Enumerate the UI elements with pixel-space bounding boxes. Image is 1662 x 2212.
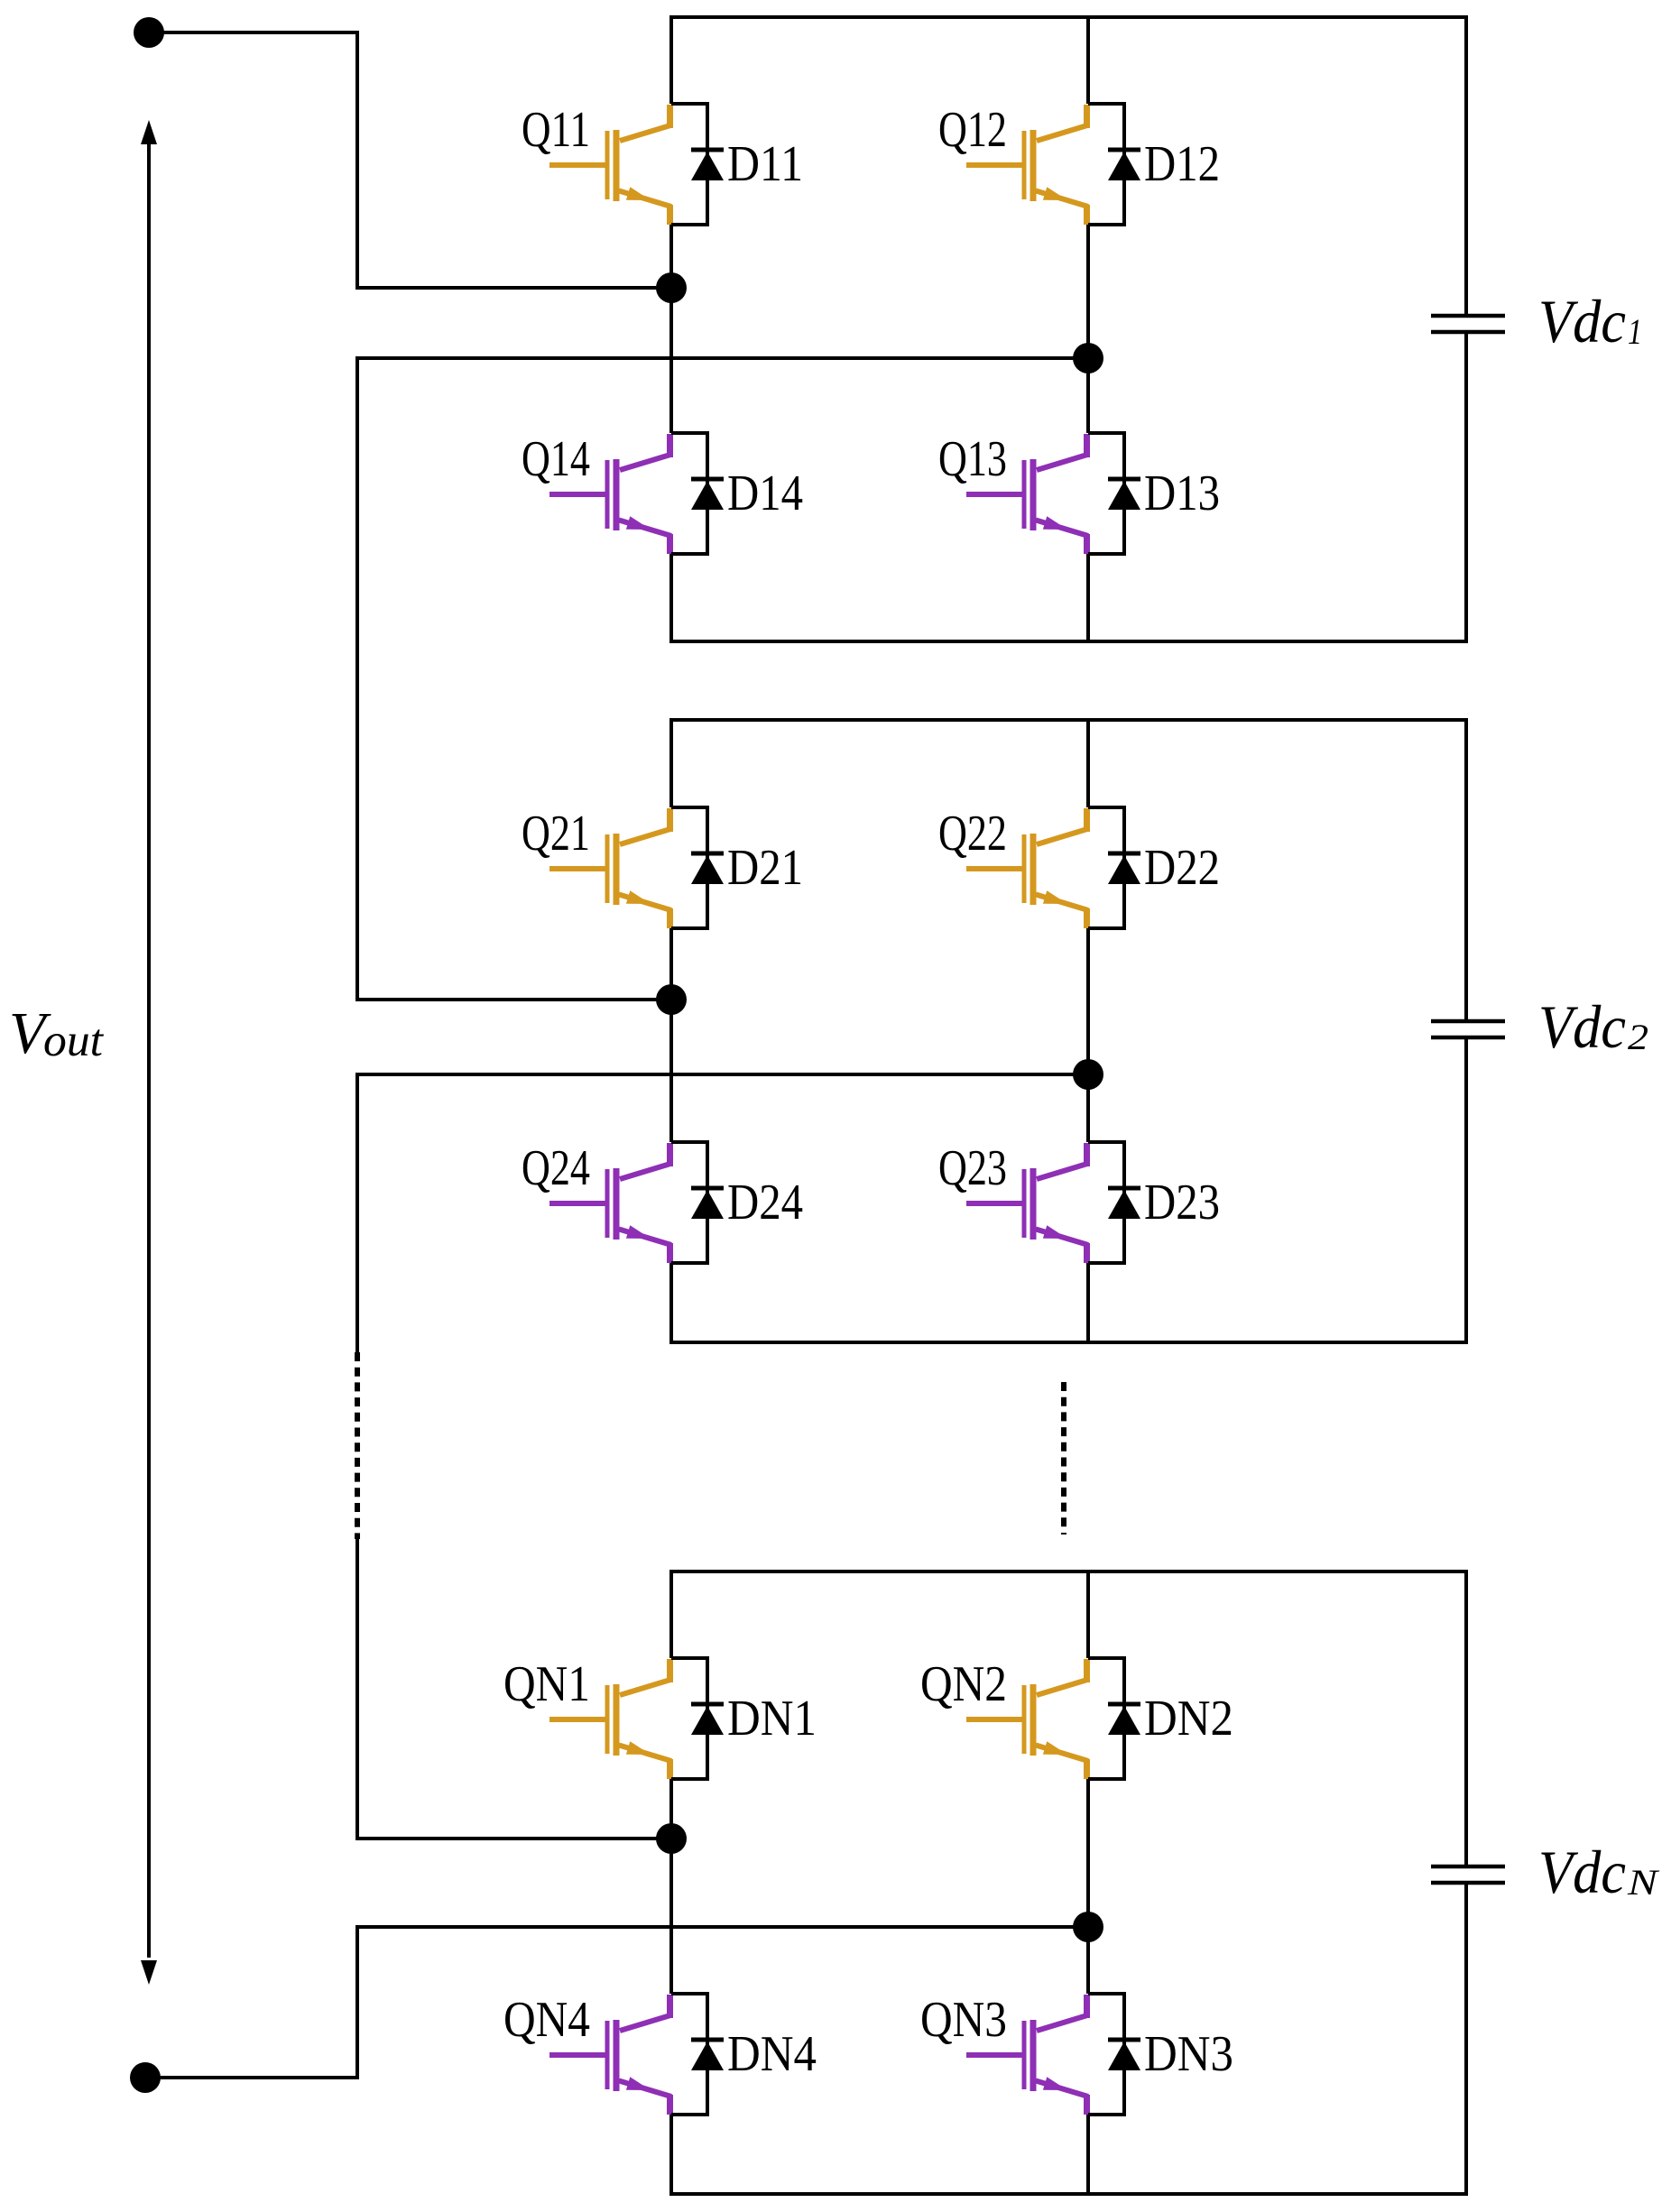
transistor QN4 (IGBT) [549,1995,671,2115]
diode DN3 [1108,2040,1140,2070]
wire: D23 branch bracket [1088,1142,1124,1263]
wire: DN1 branch bracket [671,1658,707,1779]
svg-text:Q11: Q11 [522,102,590,158]
diode D22 [1108,853,1140,884]
svg-text:2: 2 [1628,1017,1648,1057]
wire: cell N right midpoint to bottom terminal [145,1927,1088,2078]
wire: cell 1 right midpoint to cell 2 left midpoint [357,358,1088,1000]
wire: cell N right leg middle [1086,1779,1090,1994]
svg-text:Q24: Q24 [522,1140,590,1196]
svg-text:D14: D14 [727,465,803,521]
svg-text:1: 1 [1628,311,1642,352]
wire: cell 1 right leg middle [1086,225,1090,433]
wire: cell N left leg middle [669,1779,673,1994]
node cell N right midpoint [1073,1912,1103,1942]
wire: cell 2 right leg top [1086,720,1090,807]
wire: D11 branch bracket [671,104,707,225]
wire: cell 2 left leg middle [669,928,673,1142]
diode DN4 [691,2040,724,2070]
wire: cell N top rail [669,1570,1468,1573]
diode D13 [1108,479,1140,510]
wire: D12 branch bracket [1088,104,1124,225]
node output terminal top [134,17,164,48]
wire: cell 1 dc side leg upper [1464,17,1468,316]
wire: cell 1 bottom rail [669,640,1468,643]
node cell 1 right midpoint [1073,343,1103,373]
svg-text:QN3: QN3 [920,1992,1007,2048]
svg-text:D22: D22 [1144,840,1220,896]
svg-text:Vdc: Vdc [1538,992,1626,1061]
wire: cell 1 left leg bottom [669,554,673,641]
wire: cell 1 top rail [669,15,1468,19]
wire: cell 2 bottom rail [669,1341,1468,1344]
wire: cell 2 right leg bottom [1086,1263,1090,1342]
wire: cell 2 top rail [669,718,1468,722]
diode D23 [1108,1188,1140,1219]
wire: cell N right leg top [1086,1571,1090,1658]
transistor Q22 (IGBT) [966,808,1088,928]
capacitor Vdc1 [1431,316,1505,332]
svg-text:Q21: Q21 [522,806,590,862]
svg-text:D13: D13 [1144,465,1220,521]
svg-text:Q23: Q23 [938,1140,1007,1196]
wire: D22 branch bracket [1088,807,1124,928]
diode D11 [691,150,724,180]
transistor Q14 (IGBT) [549,434,671,554]
wire: left bus lower solid part to cell N left midpoint [357,1539,671,1839]
svg-text:D24: D24 [727,1175,803,1230]
wire: left bus dashed continuation [355,1352,360,1539]
wire: cell 2 left leg bottom [669,1263,673,1342]
diode D12 [1108,150,1140,180]
svg-text:Vdc: Vdc [1538,287,1626,355]
svg-text:Q22: Q22 [938,806,1007,862]
wire: DN3 branch bracket [1088,1994,1124,2115]
svg-text:QN2: QN2 [920,1656,1007,1712]
wire: cell N bottom rail [669,2192,1468,2196]
wire: cell 1 left leg middle [669,225,673,433]
wire: D14 branch bracket [671,433,707,554]
wire: dashed continuation between middle legs [1061,1382,1066,1535]
wire: cell 2 right midpoint down left bus (upper solid part) [357,1074,1088,1352]
capacitor Vdc2 [1431,1021,1505,1037]
wire: cell 1 dc side leg lower [1464,332,1468,641]
svg-text:DN4: DN4 [727,2026,817,2082]
wire: cell 1 left leg top [669,17,673,104]
svg-text:DN3: DN3 [1144,2026,1233,2082]
wire: cell 1 right leg top [1086,17,1090,104]
node cell N left midpoint [656,1823,687,1854]
node cell 1 left midpoint [656,272,687,303]
svg-text:D12: D12 [1144,136,1220,192]
svg-text:DN1: DN1 [727,1691,817,1747]
wire: cell 2 left leg top [669,720,673,807]
wire: cell 2 dc side leg upper [1464,720,1468,1021]
wire: cell N dc side leg lower [1464,1883,1468,2194]
wire: cell N left leg top [669,1571,673,1658]
transistor Q12 (IGBT) [966,105,1088,225]
node cell 2 right midpoint [1073,1059,1103,1090]
node output terminal bottom [130,2062,161,2093]
diode DN1 [691,1704,724,1735]
svg-text:D23: D23 [1144,1175,1220,1230]
svg-text:QN1: QN1 [503,1656,590,1712]
diode DN2 [1108,1704,1140,1735]
svg-text:Q12: Q12 [938,102,1007,158]
svg-text:Q13: Q13 [938,431,1007,487]
wire: top terminal to cell 1 left midpoint [149,32,671,288]
transistor QN1 (IGBT) [549,1659,671,1779]
wire: DN4 branch bracket [671,1994,707,2115]
Vout measurement arrow [141,120,157,1985]
svg-text:DN2: DN2 [1144,1691,1233,1747]
transistor Q11 (IGBT) [549,105,671,225]
wire: D21 branch bracket [671,807,707,928]
svg-text:Vdc: Vdc [1538,1838,1626,1906]
diode D24 [691,1188,724,1219]
wire: cell 1 right leg bottom [1086,554,1090,641]
diode D14 [691,479,724,510]
transistor QN3 (IGBT) [966,1995,1088,2115]
transistor Q23 (IGBT) [966,1143,1088,1263]
transistor QN2 (IGBT) [966,1659,1088,1779]
svg-text:Q14: Q14 [522,431,590,487]
wire: cell 2 right leg middle [1086,928,1090,1142]
diode D21 [691,853,724,884]
wire: cell N dc side leg upper [1464,1571,1468,1866]
transistor Q13 (IGBT) [966,434,1088,554]
svg-text:N: N [1627,1862,1660,1903]
wire: cell N left leg bottom [669,2115,673,2194]
svg-text:out: out [43,1016,105,1066]
wire: D13 branch bracket [1088,433,1124,554]
wire: cell N right leg bottom [1086,2115,1090,2194]
wire: D24 branch bracket [671,1142,707,1263]
wire: DN2 branch bracket [1088,1658,1124,1779]
svg-text:D21: D21 [727,840,803,896]
svg-text:QN4: QN4 [503,1992,590,2048]
wire: cell 2 dc side leg lower [1464,1037,1468,1342]
transistor Q24 (IGBT) [549,1143,671,1263]
transistor Q21 (IGBT) [549,808,671,928]
svg-text:D11: D11 [727,136,803,192]
capacitor VdcN [1431,1866,1505,1883]
node cell 2 left midpoint [656,984,687,1015]
